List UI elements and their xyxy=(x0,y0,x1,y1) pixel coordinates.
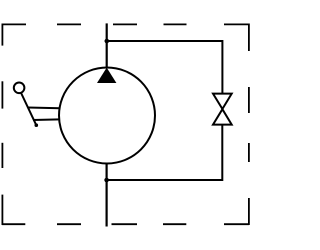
enclosure right border xyxy=(248,24,250,226)
control fork upper line xyxy=(28,107,60,110)
enclosure top border xyxy=(2,23,249,25)
lever arm end dot xyxy=(35,123,39,127)
wire pump inlet bottom xyxy=(105,163,107,227)
enclosure left border xyxy=(1,24,3,226)
lever knob xyxy=(14,83,25,94)
control fork lower line xyxy=(33,118,60,121)
wire valve outlet down xyxy=(107,125,223,180)
valve V1 bottom triangle xyxy=(213,109,232,124)
lever arm xyxy=(21,93,36,125)
junction bottom xyxy=(104,178,109,183)
junction top xyxy=(105,39,110,44)
pump P1 circle xyxy=(59,68,155,164)
wire pump outlet top xyxy=(106,23,108,68)
enclosure bottom border xyxy=(2,223,249,225)
valve V1 top triangle xyxy=(213,94,232,109)
pump P1 flow direction triangle xyxy=(97,68,116,83)
wire top branch to valve xyxy=(107,41,223,94)
